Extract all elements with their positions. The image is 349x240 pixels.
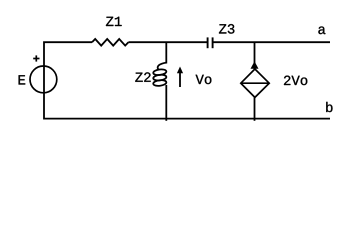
- dependent source diamond middle line: [241, 82, 269, 84]
- wire Z2 branch top: [165, 42, 167, 63]
- label E: [19, 75, 26, 84]
- capacitor Z3: [208, 37, 213, 48]
- wire top rail left segment + left branch + bottom rail: [44, 42, 330, 118]
- dependent source 2Vo diamond: [241, 69, 269, 97]
- arrow Vo head: [177, 67, 183, 74]
- voltage source E circle: [30, 66, 57, 93]
- arrow Vo shaft: [179, 72, 181, 88]
- wire dependent source branch top: [254, 42, 256, 69]
- wire top rail middle segment: [128, 41, 207, 43]
- wire Z2 branch bottom: [165, 85, 167, 121]
- plus sign: [33, 55, 39, 61]
- label Z1: [106, 17, 122, 26]
- label 2Vo: [284, 76, 307, 86]
- wire top rail right segment: [213, 41, 330, 43]
- terminal a: [318, 27, 325, 35]
- label Z3: [219, 24, 234, 33]
- label Vo: [196, 75, 212, 84]
- inductor Z2 coil: [153, 63, 167, 87]
- label Z2: [135, 72, 150, 81]
- resistor Z1: [92, 39, 128, 46]
- dependent source arrow head: [251, 61, 259, 69]
- wire dependent source branch bottom: [254, 97, 256, 120]
- terminal b: [326, 102, 332, 112]
